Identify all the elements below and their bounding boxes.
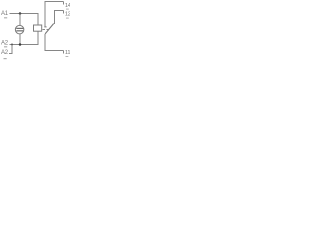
wire contact 12 (horizontal + NC post down) xyxy=(55,11,64,24)
terminal A2 tick xyxy=(4,46,7,47)
terminal 12 tick xyxy=(66,18,69,19)
coil bar upper xyxy=(16,28,23,29)
wire coil to bottom junction xyxy=(19,34,21,45)
svg-text:12: 12 xyxy=(65,11,70,17)
mechanical link dashed xyxy=(43,29,50,31)
terminal 11 tick xyxy=(66,56,69,57)
terminal 14 hook xyxy=(63,2,65,5)
wire contact 14 (horizontal + NO post down) xyxy=(45,2,64,27)
switch lever xyxy=(45,24,54,34)
wire A1 to box (top horizontal + right vertical into box) xyxy=(10,14,38,26)
wire common to terminal 11 xyxy=(45,34,64,51)
background xyxy=(0,0,70,66)
terminal 14 tick xyxy=(66,9,69,10)
coil K1 circle xyxy=(15,25,24,33)
wire A2 horizontal + vertical up into box bottom xyxy=(10,31,38,44)
node junction dot A2 branch xyxy=(11,44,13,46)
wire junction to coil xyxy=(19,14,21,26)
suppressor box xyxy=(34,25,42,31)
contact 14 tip tick xyxy=(44,26,46,27)
node junction dot top xyxy=(19,12,22,15)
svg-text:A2: A2 xyxy=(1,40,9,46)
terminal 12 hook xyxy=(63,11,65,14)
terminal 11 hook xyxy=(63,51,65,54)
svg-text:11: 11 xyxy=(65,50,70,56)
svg-text:A1: A1 xyxy=(1,11,9,17)
node junction dot bottom xyxy=(19,43,22,46)
svg-text:14: 14 xyxy=(65,3,70,9)
wire second A2 up to A2 wire xyxy=(9,45,12,54)
coil bar lower xyxy=(16,30,23,31)
terminal A1 tick xyxy=(4,17,7,18)
terminal A2 second tick xyxy=(4,58,7,59)
svg-text:A2: A2 xyxy=(1,50,9,56)
